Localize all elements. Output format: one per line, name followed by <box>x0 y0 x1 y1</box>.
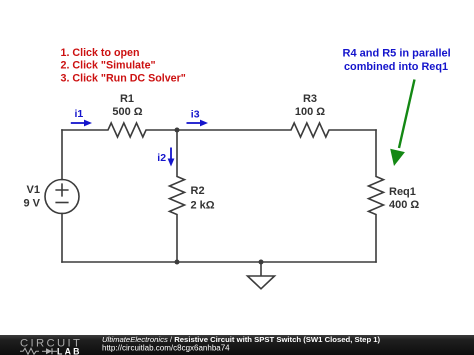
svg-text:Req1: Req1 <box>389 186 416 198</box>
svg-text:R4 and R5 in parallel: R4 and R5 in parallel <box>343 48 451 60</box>
svg-text:R1: R1 <box>120 93 134 105</box>
svg-text:R3: R3 <box>303 93 317 105</box>
svg-text:R2: R2 <box>191 185 205 197</box>
svg-text:http://circuitlab.com/c8cgx6an: http://circuitlab.com/c8cgx6anhba74 <box>102 344 230 353</box>
svg-text:400 Ω: 400 Ω <box>389 199 419 211</box>
svg-text:i3: i3 <box>191 108 200 120</box>
svg-text:100 Ω: 100 Ω <box>295 106 325 118</box>
svg-text:V1: V1 <box>27 184 40 196</box>
svg-text:500 Ω: 500 Ω <box>112 106 142 118</box>
svg-text:LAB: LAB <box>57 346 82 355</box>
svg-text:1. Click to open: 1. Click to open <box>61 47 140 59</box>
svg-text:3. Click "Run DC Solver": 3. Click "Run DC Solver" <box>61 72 186 84</box>
svg-text:i1: i1 <box>75 108 84 120</box>
svg-text:9 V: 9 V <box>23 198 40 210</box>
svg-text:i2: i2 <box>157 152 166 164</box>
svg-text:combined into Req1: combined into Req1 <box>344 61 448 73</box>
svg-text:2. Click "Simulate": 2. Click "Simulate" <box>61 60 156 72</box>
svg-text:2 kΩ: 2 kΩ <box>191 200 215 212</box>
